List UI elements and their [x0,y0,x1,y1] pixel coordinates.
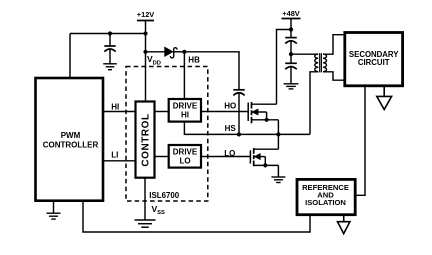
wire LI [103,160,136,162]
label VSS [152,204,165,216]
svg-text:LO: LO [179,157,190,166]
svg-text:+12V: +12V [137,10,155,19]
svg-text:HO: HO [224,101,236,110]
svg-text:SS: SS [157,210,165,216]
svg-text:HB: HB [188,56,200,65]
wire secondary circuit to reference [355,86,365,196]
wire LO [201,156,250,158]
capacitor C1 (VDD decoupling) [104,34,115,64]
ground (VSS) [135,220,156,227]
diode D1 (schottky bootstrap) [146,47,185,58]
wire primary return to HS [310,72,318,135]
node rail/C1 junction [108,31,112,35]
ISL6700 dashed boundary [126,67,208,202]
+48V supply terminal [282,19,301,38]
ground (reference, triangle) [338,215,350,234]
wire HS [184,122,309,135]
DRIVE HI block [169,99,201,122]
svg-text:HI: HI [111,103,119,112]
ground (secondary, triangle) [377,86,392,110]
label VDD [147,54,161,66]
node HB [182,50,186,54]
wire VDD [145,34,147,102]
svg-text:HI: HI [181,111,189,120]
svg-text:+48V: +48V [282,9,300,18]
wire VSS [144,178,146,220]
transistor Q1 (high-side NMOS) [248,102,278,134]
svg-text:ISL6700: ISL6700 [149,191,179,200]
ground (PWM) [47,201,61,219]
svg-text:DD: DD [153,60,161,66]
node rail/VDD junction [143,31,147,35]
wire +12V rail [70,33,146,35]
PWM controller block [36,78,104,201]
node C2/HS junction [237,132,241,136]
svg-text:CONTROLLER: CONTROLLER [43,140,99,149]
svg-text:PWM: PWM [61,131,81,140]
REFERENCE AND ISOLATION block [297,179,355,214]
node Q2 source/body [263,163,267,167]
transistor Q2 (low-side NMOS) [250,134,278,176]
wire feedback reference to PWM [83,201,310,232]
svg-text:ISOLATION: ISOLATION [305,198,346,207]
ground (C1) [103,64,117,70]
wire HI [103,111,136,113]
svg-text:CONTROL: CONTROL [140,113,151,166]
ground (C4) [284,84,299,89]
wire CONTROL to DRIVE HI [155,111,169,113]
wire HO [201,111,248,113]
capacitor C3 (bus upper) [285,38,297,64]
wire capacitor midpoint to transformer primary [291,53,318,55]
node Q1 source/body [265,118,269,122]
svg-text:DRIVE: DRIVE [173,148,198,157]
wire Q1 drain to +48V [277,30,292,105]
svg-text:CIRCUIT: CIRCUIT [358,58,390,67]
node HS midpoint junction [276,132,280,136]
node VDD/diode junction [143,50,147,54]
svg-text:LI: LI [111,150,118,159]
svg-text:DRIVE: DRIVE [173,102,198,111]
wire CONTROL to DRIVE LO [155,156,169,158]
DRIVE LO block [169,145,201,168]
CONTROL block [136,102,155,178]
wire HB to bootstrap capacitor [184,52,239,90]
capacitor C2 (bootstrap) [233,90,244,135]
ground (Q2 source) [271,177,285,183]
transformer T1 [315,53,327,72]
node +48V junction [289,27,293,31]
SECONDARY CIRCUIT block [345,33,403,86]
capacitor C4 (bus lower) [285,63,297,83]
wire rail to PWM controller [69,34,71,79]
node bus capacitor midpoint [289,52,293,56]
wire HB to DRIVE HI [183,52,185,99]
svg-text:LO: LO [224,149,235,158]
+12V supply terminal [137,21,154,34]
wire secondary bottom to box [323,72,345,80]
svg-text:HS: HS [225,124,237,133]
wire secondary top to box [323,35,345,55]
